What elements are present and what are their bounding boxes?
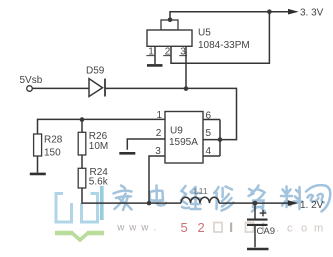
wire CA9 top lead [254, 203, 256, 219]
ground at U9 pin2 [119, 152, 135, 155]
wire U5 pin3 down to 5Vsb net [185, 46, 187, 88]
polarity plus of CA9 [260, 210, 267, 217]
wire U9 pin3 down to output rail [149, 156, 165, 203]
svg-text:o: o [301, 223, 307, 235]
inductor L11 coil [181, 197, 219, 203]
wire R24 bottom to output rail [82, 188, 149, 203]
node 5Vsb terminal [27, 86, 33, 92]
resistor R24 [78, 168, 86, 188]
svg-text:w: w [140, 223, 149, 234]
watermark char 6 (liao) [281, 187, 302, 210]
svg-text:3: 3 [155, 146, 161, 157]
watermark url digit 1 [230, 223, 232, 233]
wire output rail left segment [149, 202, 181, 204]
watermark char 7 (wang) [306, 185, 330, 211]
wire R26 top lead [81, 120, 83, 133]
watermark url digit 0 [246, 223, 254, 233]
svg-text:m: m [314, 223, 323, 235]
svg-text:150: 150 [44, 147, 61, 158]
wire U9 pin6/pin5/pin4 tie bus [203, 120, 220, 157]
power arrow 3.3V [288, 9, 299, 15]
node junction at R26 top [80, 117, 85, 122]
node junction on 5Vsb wire at U5 pin3 column [184, 86, 189, 91]
svg-text:.: . [276, 223, 279, 235]
svg-text:D59: D59 [86, 66, 105, 77]
svg-text:L11: L11 [194, 186, 208, 196]
watermark logo teal bar [100, 186, 104, 220]
svg-text:U5: U5 [198, 27, 211, 38]
diode D59 [89, 79, 105, 97]
watermark url .com [276, 223, 323, 235]
svg-text:2: 2 [198, 220, 205, 235]
svg-text:2: 2 [156, 128, 162, 139]
watermark url row: www. [116, 223, 156, 234]
wire R28 to ground [37, 156, 39, 173]
svg-text:CA9: CA9 [257, 226, 275, 237]
wire 5Vsb to diode D59 anode [32, 87, 89, 89]
svg-text:1. 2V: 1. 2V [300, 200, 324, 211]
ground at CA9 [247, 248, 269, 251]
svg-text:.: . [154, 223, 157, 234]
regulator U5 body [147, 30, 192, 46]
node junction on 3.3V rail [267, 9, 272, 14]
wire U5 pin2 up to 3.3V rail [171, 12, 269, 64]
wire CA9 bottom lead [254, 226, 256, 247]
svg-text:4: 4 [206, 146, 212, 157]
resistor R28 [34, 134, 42, 156]
regulator U5 tab [161, 20, 178, 30]
svg-text:10M: 10M [89, 141, 108, 152]
wire feedback net R28/R26 to U9 pin1 [38, 119, 166, 134]
svg-text:5: 5 [206, 128, 212, 139]
watermark logo book pages [56, 194, 98, 223]
svg-text:U9: U9 [170, 125, 183, 136]
watermark char 4 (xiu) [214, 187, 234, 211]
resistor R26 [78, 132, 86, 155]
wire D59 cathode right then down to U9 pin5 [105, 88, 237, 139]
wire U5 pin1 to ground [154, 46, 156, 64]
svg-text:R28: R28 [44, 135, 63, 146]
svg-text:c: c [287, 223, 293, 235]
capacitor CA9 plates [247, 219, 268, 221]
svg-text:1084-33PM: 1084-33PM [198, 40, 250, 51]
wire R26 to R24 [81, 155, 83, 168]
ground at U5 pin1 [147, 64, 163, 67]
watermark char 5 (zi) [249, 186, 266, 212]
node junction output rail at pin3 column [147, 201, 152, 206]
watermark char 2 (dian) [150, 186, 167, 206]
svg-text:5Vsb: 5Vsb [20, 75, 43, 86]
watermark char 3 (wei) [181, 186, 201, 209]
svg-text:w: w [128, 223, 137, 234]
svg-text:w: w [116, 223, 125, 234]
node junction at CA9 [253, 201, 258, 206]
svg-text:5.6k: 5.6k [89, 177, 109, 188]
wire U9 pin2 to ground [127, 139, 165, 150]
svg-text:1595A: 1595A [169, 137, 198, 148]
wire output rail right segment to arrow [219, 202, 288, 204]
watermark url digit 0 [214, 223, 222, 233]
node junction at U9 pin5 [218, 137, 223, 142]
ground at R28 [30, 173, 46, 176]
svg-text:3. 3V: 3. 3V [300, 7, 324, 18]
svg-text:5: 5 [181, 220, 188, 235]
node junction dot on U5 tab [168, 18, 173, 23]
watermark char 1 (jia) [114, 186, 132, 211]
watermark logo green book base [55, 233, 104, 241]
watermark url digit 1 [262, 223, 264, 233]
svg-text:1: 1 [157, 110, 163, 121]
power arrow 1.2V [288, 200, 299, 206]
ic U9 body [165, 112, 203, 164]
wire top rail from U5 tab to 3.3V arrow [170, 12, 289, 20]
